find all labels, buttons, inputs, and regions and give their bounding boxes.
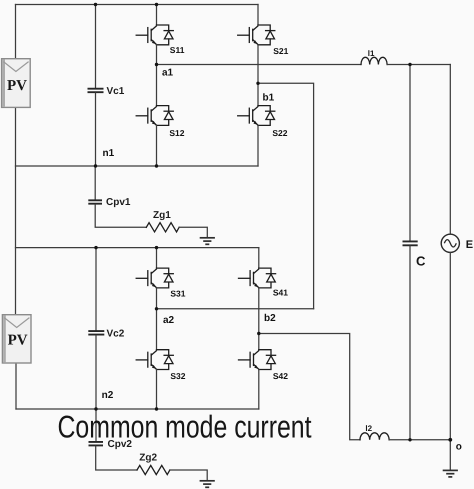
junction n1 at Vc1 (94, 164, 97, 167)
svg-text:Vc1: Vc1 (107, 86, 125, 97)
junction n2 at Vc2 (94, 407, 97, 410)
transistor S41 (238, 268, 275, 288)
resistor Zg1 (146, 223, 179, 232)
junction l2 output at C (408, 438, 411, 441)
wire S11 emitter to a1 (156, 45, 158, 106)
junction rail2 at S31 (155, 246, 158, 249)
transistor S21 (238, 25, 275, 45)
wire S22 emitter to n1 (257, 125, 259, 166)
junction n2 at S32 (155, 407, 158, 410)
transistor S31 (136, 268, 173, 288)
svg-text:S22: S22 (272, 128, 287, 138)
source E (441, 234, 459, 252)
ground earth at node o (443, 470, 458, 477)
wire S32 emitter to n2 (156, 370, 158, 410)
wire Zg2 to earth (170, 470, 207, 481)
junction rail2 at Vc2 (94, 246, 97, 249)
svg-text:a2: a2 (163, 315, 175, 326)
node b1 (256, 82, 259, 85)
wire S41 emitter through b2 to S42 (258, 288, 260, 350)
wire S21-S22 leg top (257, 5, 259, 26)
svg-text:S21: S21 (273, 46, 288, 56)
svg-text:S42: S42 (273, 371, 288, 381)
svg-text:E: E (466, 239, 473, 251)
svg-text:b1: b1 (263, 92, 275, 103)
svg-text:Cpv1: Cpv1 (106, 197, 131, 208)
svg-text:l2: l2 (365, 424, 372, 433)
svg-text:Zg2: Zg2 (139, 452, 157, 463)
svg-text:S32: S32 (170, 371, 185, 381)
capacitor Vc2 (88, 331, 104, 335)
wire Vc2 branch upper (95, 248, 97, 331)
wire link to node a2 (157, 308, 314, 310)
ground earth of Zg2 (200, 481, 215, 488)
wire Vc1 branch upper (95, 5, 97, 88)
svg-text:PV: PV (8, 333, 28, 349)
wire source branch upper (449, 65, 451, 235)
capacitor Cpv2 (89, 442, 104, 446)
wire node b2 to inductor l2 (259, 334, 360, 440)
wire source branch lower (449, 252, 451, 470)
wire Cpv1 branch (94, 166, 96, 199)
node a1 (155, 63, 158, 66)
svg-text:a1: a1 (162, 68, 174, 79)
ground earth of Zg1 (200, 238, 215, 245)
PV panel PV1 (2, 59, 31, 108)
wire l2 to node o (389, 439, 450, 441)
wire grid capacitor branch lower (409, 246, 411, 440)
inductor l1 (361, 57, 387, 64)
svg-text:b2: b2 (264, 313, 276, 324)
wire node b1 to link (258, 83, 314, 308)
wire S31-S32 leg top (156, 248, 158, 269)
transistor S12 (136, 106, 173, 126)
svg-text:Zg1: Zg1 (153, 210, 171, 221)
svg-text:o: o (456, 442, 462, 453)
junction top rail at S11 (155, 3, 158, 6)
wire Cpv1 to Zg1 (95, 205, 146, 228)
transistor S42 (238, 350, 275, 370)
svg-text:S41: S41 (273, 288, 288, 298)
svg-text:n2: n2 (102, 390, 114, 401)
junction n1 at S12 (155, 164, 158, 167)
wire Cpv2 branch (95, 409, 97, 441)
wire n1 rail (16, 165, 259, 167)
resistor Zg2 (137, 465, 170, 474)
wire node a1 to filter inductor l1 (157, 64, 362, 66)
svg-text:S31: S31 (170, 289, 185, 299)
wire Cpv2 to Zg2 (96, 446, 137, 470)
wire grid capacitor branch upper (409, 65, 411, 241)
wire S12 emitter to n1 (156, 125, 158, 166)
transistor S11 (136, 25, 173, 45)
wire l1 to grid corner (387, 64, 450, 66)
wire S31 emitter to S32 (156, 288, 158, 350)
wire Zg1 to earth (179, 227, 207, 237)
junction l1 output (408, 63, 411, 66)
wire top DC rail of bridge 2 (16, 247, 259, 249)
wire S41-S42 leg top (258, 248, 260, 269)
inductor l2 (360, 433, 389, 440)
svg-text:C: C (416, 253, 426, 268)
svg-text:n1: n1 (103, 148, 115, 159)
capacitor Cpv1 (88, 200, 102, 203)
PV panel PV2 (2, 315, 31, 363)
node o junction (448, 438, 452, 442)
junction top rail at Vc1 (94, 3, 97, 6)
svg-text:S12: S12 (169, 128, 184, 138)
wire Vc1 branch lower (95, 93, 97, 166)
wire S21 emitter through b1 to S22 (257, 45, 259, 106)
capacitor C (403, 241, 418, 245)
wire n2 rail (16, 408, 259, 410)
node a2 (155, 307, 158, 310)
svg-text:Common mode current: Common mode current (58, 409, 312, 445)
wire S11-S12 leg top (156, 5, 158, 26)
wire left bus PV2 bottom to n2 (15, 363, 17, 409)
svg-text:l1: l1 (368, 49, 375, 58)
wire top DC rail of bridge 1 (16, 4, 259, 6)
capacitor Vc1 (88, 89, 104, 93)
node b2 (257, 332, 260, 335)
transistor S22 (238, 106, 275, 126)
svg-text:Vc2: Vc2 (107, 328, 125, 339)
wire left bus PV1 top (15, 5, 17, 59)
svg-text:PV: PV (7, 78, 27, 94)
transistor S32 (136, 350, 173, 370)
wire S42 emitter to n2 (258, 370, 260, 410)
wire Vc2 branch lower (95, 335, 97, 409)
wire left bus PV1 bottom to PV2 top (15, 107, 17, 314)
svg-text:S11: S11 (170, 45, 185, 55)
